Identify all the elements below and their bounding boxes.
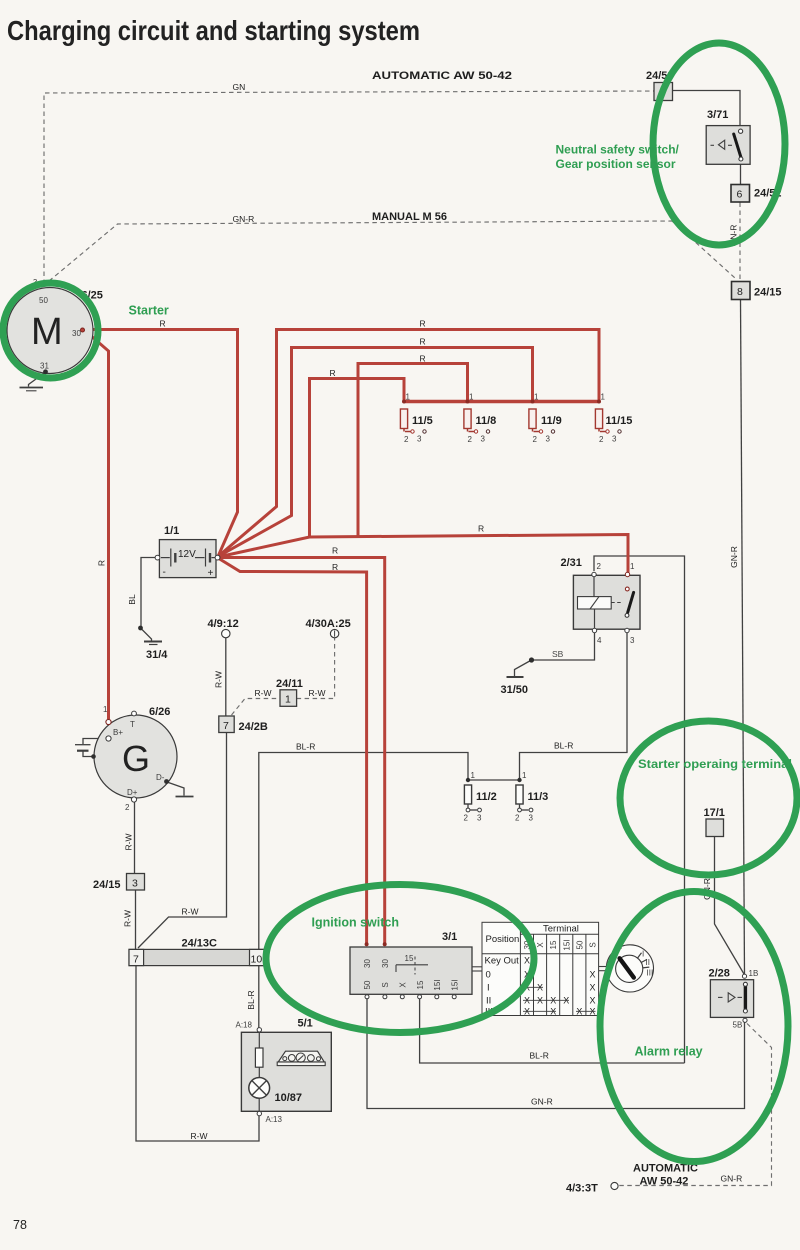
svg-text:1: 1 — [406, 393, 411, 402]
wire: connector 24/53 to switch 3/71 — [673, 91, 741, 130]
svg-text:AW 50-42: AW 50-42 — [640, 1176, 689, 1188]
svg-text:24/15: 24/15 — [754, 287, 782, 299]
svg-text:1: 1 — [469, 393, 474, 402]
svg-text:3: 3 — [630, 636, 635, 645]
wire: relay 2/31 terminal 2 to ignition 15 (via BL-R) — [594, 556, 685, 1063]
svg-text:Starter: Starter — [129, 304, 169, 318]
svg-text:GN-R: GN-R — [729, 546, 739, 568]
svg-text:Key Out: Key Out — [485, 956, 520, 967]
svg-text:4/9:12: 4/9:12 — [208, 618, 239, 630]
relay actuation dashes — [611, 602, 622, 604]
wire R: fuse feeder 11/5 — [310, 379, 405, 538]
wire R-W: 24/15 down to connector 24/13C pin 7 — [135, 890, 137, 949]
svg-text:5B: 5B — [733, 1021, 743, 1030]
wire: generator D- ground lead — [167, 782, 184, 796]
fuse 11/15 — [595, 393, 621, 445]
svg-text:50: 50 — [363, 980, 372, 989]
ground 31/4 (battery) — [138, 626, 162, 645]
wire R-W dashed: 24/2B to 24/11 pin 1 — [232, 699, 281, 716]
svg-text:2/28: 2/28 — [709, 968, 730, 980]
connector 24/11 pin 1 — [280, 690, 297, 707]
terminal 4/30A:25 — [330, 629, 338, 637]
svg-text:11/3: 11/3 — [528, 791, 549, 803]
svg-text:R-W: R-W — [182, 907, 199, 917]
wire R-W: connector 24/13C pin 7 to 5/1 A:13 — [136, 966, 259, 1141]
warning lamp symbol — [249, 1078, 270, 1099]
svg-text:11/9: 11/9 — [541, 415, 562, 427]
svg-text:11/2: 11/2 — [476, 791, 497, 803]
svg-text:24/2B: 24/2B — [239, 721, 268, 733]
svg-text:R: R — [97, 560, 107, 566]
wire R-W: 24/2B down to connector 24/13C pin 7 — [138, 733, 227, 949]
wire R-W: generator D+ down to 24/15 — [134, 802, 136, 874]
svg-text:Starter operaing terminal: Starter operaing terminal — [638, 757, 792, 771]
wire: switch 3/71 to connector 6 — [740, 161, 742, 185]
svg-text:III: III — [647, 969, 654, 978]
svg-text:R: R — [332, 562, 338, 572]
wire: battery minus to ground 31/4 — [141, 558, 156, 628]
svg-text:X: X — [589, 983, 595, 993]
generator 6/26 — [75, 705, 177, 812]
svg-text:11/8: 11/8 — [476, 415, 497, 427]
relay coil — [593, 577, 595, 597]
svg-text:D-: D- — [156, 773, 165, 782]
connector 8 (24/15) — [732, 282, 751, 300]
svg-text:12V: 12V — [178, 549, 196, 560]
wire BL-R: horizontal to fuse 11/2 and 5/1 — [259, 753, 468, 1029]
wire dashed: MANUAL line to connector 8 — [672, 221, 735, 278]
svg-text:S: S — [589, 942, 598, 947]
fuse 11/5 — [400, 393, 426, 445]
svg-text:AUTOMATIC AW 50-42: AUTOMATIC AW 50-42 — [372, 70, 512, 82]
svg-text:1: 1 — [534, 393, 539, 402]
svg-text:R: R — [420, 319, 426, 329]
svg-text:0: 0 — [486, 970, 491, 981]
wire R: battery to fuse feeder 11/9 — [218, 348, 533, 557]
svg-text:R-W: R-W — [214, 671, 224, 688]
svg-text:15I: 15I — [451, 979, 460, 990]
svg-text:+: + — [208, 568, 214, 579]
svg-text:BL-R: BL-R — [530, 1051, 549, 1061]
ignition position table — [482, 922, 599, 1015]
svg-text:R: R — [420, 354, 426, 364]
wire GN-R: terminal 17/1 down to alarm relay 1B — [715, 837, 745, 975]
ignition switch 3/1 — [350, 942, 482, 999]
connector 7 (24/2B) — [219, 716, 234, 733]
connector 24/53 — [654, 83, 673, 101]
svg-text:3: 3 — [546, 435, 551, 444]
neutral safety switch 3/71 — [706, 126, 750, 165]
svg-text:-: - — [163, 567, 166, 578]
ignition bottom terminals — [365, 995, 369, 999]
svg-text:24/13C: 24/13C — [182, 938, 218, 950]
svg-text:1/1: 1/1 — [164, 525, 179, 537]
annotation ellipse neutral safety switch — [653, 43, 785, 245]
wire GN-R dashed: connector 6 to connector 8 — [739, 203, 741, 281]
wire GN dashed: starter 50 to AUTOMATIC gearbox — [44, 91, 654, 284]
svg-text:2: 2 — [597, 562, 602, 571]
wire: generator suppressor capacitor link — [83, 739, 107, 745]
svg-text:6/26: 6/26 — [149, 706, 170, 718]
annotation ellipse alarm relay — [600, 892, 788, 1162]
svg-text:11/5: 11/5 — [412, 415, 433, 427]
svg-text:15: 15 — [405, 954, 414, 963]
svg-text:24/11: 24/11 — [276, 678, 303, 690]
wire R: battery + to starter 30 — [84, 330, 238, 557]
svg-text:R-W: R-W — [123, 910, 133, 927]
svg-text:7: 7 — [223, 720, 229, 732]
svg-text:X: X — [399, 982, 408, 988]
svg-text:M: M — [31, 311, 63, 353]
svg-text:2: 2 — [515, 814, 520, 823]
svg-text:GN-R: GN-R — [721, 1174, 743, 1184]
svg-text:15I: 15I — [433, 979, 442, 990]
svg-text:2: 2 — [464, 814, 469, 823]
svg-text:BL-R: BL-R — [554, 741, 573, 751]
svg-text:MANUAL M 56: MANUAL M 56 — [372, 211, 447, 223]
connector 6 (24/52) — [731, 185, 750, 203]
wire SB: relay 2/31 terminal 4 to ground 31/50 — [532, 633, 595, 661]
connector strip 24/13C — [129, 949, 264, 965]
svg-text:1: 1 — [630, 562, 635, 571]
svg-text:1: 1 — [471, 771, 476, 780]
svg-text:2: 2 — [125, 803, 130, 812]
svg-text:I: I — [642, 950, 644, 959]
instrument cluster icon — [278, 1051, 324, 1062]
svg-text:1: 1 — [522, 771, 527, 780]
fuse 11/9 — [529, 393, 555, 445]
svg-text:1: 1 — [601, 393, 606, 402]
svg-text:6: 6 — [737, 189, 743, 201]
svg-text:A:13: A:13 — [266, 1115, 283, 1124]
svg-text:B+: B+ — [113, 728, 123, 737]
svg-text:3: 3 — [417, 435, 422, 444]
svg-text:8: 8 — [737, 286, 743, 298]
svg-text:Terminal: Terminal — [543, 924, 579, 935]
svg-text:30: 30 — [363, 959, 372, 968]
svg-text:10/87: 10/87 — [275, 1092, 303, 1104]
wire BL-R: ignition 15 to alarm loop bottom — [420, 999, 685, 1063]
svg-text:4: 4 — [597, 636, 602, 645]
svg-text:GN-R: GN-R — [531, 1097, 553, 1107]
svg-text:SB: SB — [552, 649, 564, 659]
wire GN-R: ignition 50 to alarm relay 5B — [367, 999, 745, 1109]
annotation ring starter — [3, 283, 98, 378]
wire: starter 31 ground lead — [29, 372, 46, 387]
annotation ellipse starter operating terminal — [620, 721, 797, 875]
svg-text:D+: D+ — [127, 788, 138, 797]
wire: relay 2/31 terminal 3 down to fuse 11/3 — [520, 633, 628, 779]
svg-text:I: I — [487, 983, 490, 994]
svg-text:Ignition switch: Ignition switch — [312, 916, 400, 930]
stubs to position table — [472, 966, 482, 968]
svg-text:3: 3 — [481, 435, 486, 444]
svg-text:Gear position sensor: Gear position sensor — [556, 157, 676, 171]
svg-text:Neutral safety switch/: Neutral safety switch/ — [556, 143, 680, 157]
wire: capacitor to generator case — [83, 751, 92, 757]
svg-text:R: R — [478, 524, 484, 534]
terminal 4/9:12 — [222, 629, 230, 637]
alarm relay 2/28 — [710, 974, 753, 1022]
svg-text:R-W: R-W — [124, 834, 134, 851]
svg-text:1: 1 — [285, 694, 291, 706]
svg-text:Position: Position — [486, 934, 520, 945]
svg-text:R: R — [160, 319, 166, 329]
starter motor 6/25 — [7, 277, 93, 374]
wire GN-R dashed: starter 50 to MANUAL gearbox — [49, 221, 672, 281]
svg-text:GN-R: GN-R — [233, 214, 255, 224]
svg-text:S: S — [381, 982, 390, 987]
svg-text:BL-R: BL-R — [246, 990, 256, 1009]
annotation ellipse ignition switch — [266, 885, 534, 1033]
wire labels — [97, 82, 743, 1184]
svg-text:R-W: R-W — [191, 1131, 208, 1141]
svg-text:17/1: 17/1 — [704, 807, 725, 819]
ground starter 31 — [20, 369, 48, 390]
svg-text:30: 30 — [381, 959, 390, 968]
wire R: fuse feeder 11/8 — [358, 364, 468, 537]
svg-text:X: X — [536, 942, 545, 948]
battery 1/1 — [155, 540, 220, 579]
terminal 4/3:3T — [611, 1182, 618, 1189]
fuse 11/8 — [464, 393, 490, 445]
svg-text:4/30A:25: 4/30A:25 — [306, 618, 351, 630]
svg-text:X: X — [524, 956, 530, 966]
svg-text:3: 3 — [477, 814, 482, 823]
svg-text:4/3:3T: 4/3:3T — [566, 1183, 598, 1195]
svg-text:11/15: 11/15 — [606, 415, 633, 427]
svg-text:3: 3 — [612, 435, 617, 444]
svg-text:2: 2 — [599, 435, 604, 444]
svg-text:24/15: 24/15 — [93, 879, 121, 891]
wire R-W: 4/9:12 down to 24/2B — [225, 638, 227, 716]
wire GN-R dashed: alarm relay 5B to 4/3:3T — [619, 1024, 772, 1186]
ground 31/50 (relay 2/31) — [507, 657, 535, 677]
svg-text:1B: 1B — [749, 969, 759, 978]
capacitor (suppressor) at generator — [75, 744, 91, 746]
relay switch blade — [625, 587, 629, 591]
wire R: generator B+ branch from starter cable — [86, 332, 109, 720]
svg-text:2: 2 — [404, 435, 409, 444]
wire R-W dashed: 24/11 pin 1 to 4/30A:25 — [297, 638, 335, 699]
svg-text:78: 78 — [13, 1218, 27, 1232]
svg-text:2/31: 2/31 — [561, 557, 582, 569]
ground generator D- — [164, 779, 193, 796]
wire GN-R: connector 8 down to alarm relay 1B — [741, 300, 745, 974]
svg-text:2: 2 — [468, 435, 473, 444]
svg-text:R: R — [332, 546, 338, 556]
svg-text:3/1: 3/1 — [442, 931, 457, 943]
svg-text:R-W: R-W — [255, 688, 272, 698]
svg-text:X: X — [589, 996, 595, 1006]
svg-text:10: 10 — [251, 954, 263, 966]
svg-text:T: T — [130, 720, 135, 729]
svg-text:31/4: 31/4 — [146, 649, 168, 661]
svg-text:3/71: 3/71 — [707, 109, 728, 121]
wire: tie fuse 11/2 pin1 to 11/3 pin1 — [468, 779, 520, 781]
fuse 11/2 — [464, 771, 483, 823]
svg-text:II: II — [486, 996, 491, 1007]
svg-text:R: R — [330, 368, 336, 378]
connector 3 (24/15 left) — [127, 874, 145, 891]
svg-text:31/50: 31/50 — [501, 684, 529, 696]
svg-text:15I: 15I — [562, 939, 571, 950]
wire: ground lead 31/4 — [141, 628, 152, 641]
svg-text:GN: GN — [233, 82, 246, 92]
svg-text:BL: BL — [127, 594, 137, 605]
fuse 11/3 — [515, 771, 534, 823]
svg-text:3: 3 — [529, 814, 534, 823]
svg-text:7: 7 — [133, 954, 139, 966]
svg-text:50: 50 — [575, 940, 584, 949]
instrument module 5/1 — [241, 1028, 331, 1116]
svg-text:15: 15 — [549, 940, 558, 949]
svg-text:A:18: A:18 — [236, 1021, 253, 1030]
svg-text:1: 1 — [103, 705, 108, 714]
wire R: red bus linking fuses 11/5 11/8 11/9 11/15 — [404, 400, 599, 403]
svg-text:15: 15 — [416, 980, 425, 989]
svg-text:G: G — [122, 738, 150, 779]
svg-text:2: 2 — [533, 435, 538, 444]
wire R: battery to fuse feeder 11/15 — [218, 330, 599, 557]
fuse symbol in 5/1 — [255, 1048, 263, 1067]
wire: ground lead 31/50 — [515, 660, 532, 677]
svg-text:R-W: R-W — [309, 688, 326, 698]
svg-text:X: X — [589, 970, 595, 980]
svg-text:II: II — [646, 958, 650, 967]
wire R: battery to relay 2/31 feeder — [218, 535, 628, 590]
table X marks — [524, 956, 596, 1017]
svg-text:Alarm relay: Alarm relay — [635, 1045, 703, 1059]
wire R: battery to ignition switch 30 (right) — [218, 558, 385, 945]
svg-text:BL-R: BL-R — [296, 742, 315, 752]
starter operating terminal 17/1 — [706, 819, 724, 837]
svg-text:Charging circuit and starting: Charging circuit and starting system — [7, 15, 420, 46]
svg-text:3: 3 — [132, 878, 138, 890]
svg-text:50: 50 — [39, 296, 48, 305]
wire R: battery to ignition switch 30 (left) — [218, 558, 367, 944]
node: battery + fan point — [215, 555, 220, 560]
svg-text:R: R — [420, 337, 426, 347]
svg-text:31: 31 — [40, 362, 49, 371]
svg-text:5/1: 5/1 — [298, 1018, 313, 1030]
relay 2/31 — [573, 562, 640, 645]
key cylinder icon — [599, 944, 654, 993]
